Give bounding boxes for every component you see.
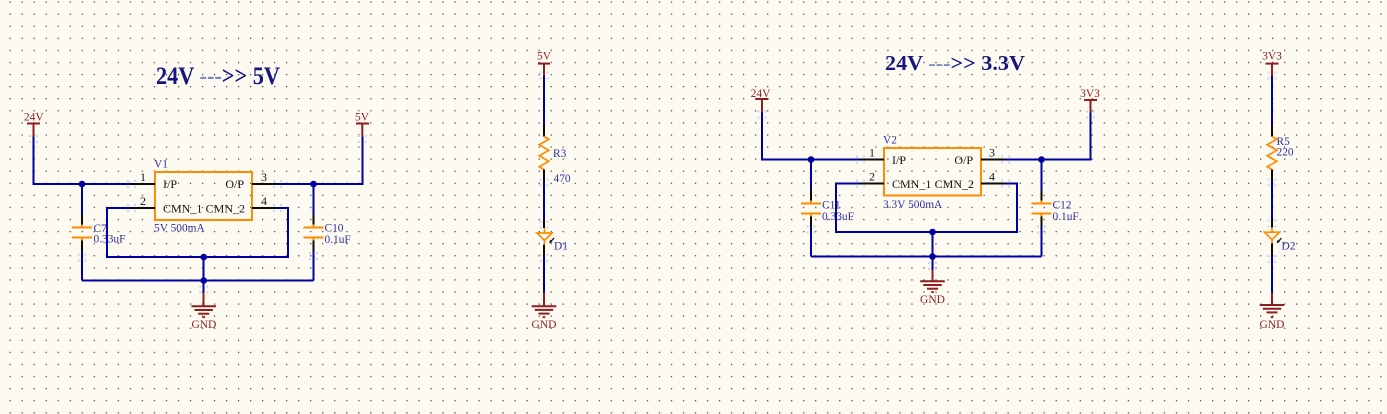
svg-text:470: 470 <box>554 173 571 185</box>
wire C10 bottom <box>313 251 315 281</box>
junction bottom rail <box>200 277 207 284</box>
ground GND (left circuit) <box>191 293 216 332</box>
junction bottom rail (right) <box>929 253 936 260</box>
resistor R5 <box>1267 125 1294 182</box>
wire bottom rail (right) <box>811 256 1042 258</box>
svg-text:GND: GND <box>532 319 557 331</box>
svg-text:C12: C12 <box>1053 200 1072 212</box>
wire 3V3 port to output node <box>1042 113 1091 160</box>
wire pin3 of V2 to output node <box>1005 159 1042 161</box>
svg-text:D1: D1 <box>554 241 568 253</box>
wire C11 top <box>810 160 812 191</box>
power port 5V (left circuit) <box>355 112 370 137</box>
wire D2 to GND <box>1271 256 1273 293</box>
svg-text:O/P: O/P <box>954 153 973 167</box>
svg-text:3: 3 <box>989 146 995 160</box>
svg-text:3V3: 3V3 <box>1080 88 1100 100</box>
svg-text:R3: R3 <box>553 148 567 160</box>
svg-text:0.33uF: 0.33uF <box>94 234 126 246</box>
ground GND (right circuit) <box>920 270 945 306</box>
connection markers <box>29 72 1277 294</box>
wire pin3 to output node <box>277 183 314 185</box>
wire D1 to GND <box>543 257 545 293</box>
junction at C7 top <box>79 181 86 188</box>
power port 5V (LED branch) <box>537 51 552 77</box>
ground GND (LED branch 1) <box>532 292 557 331</box>
wire ground stem (right) <box>932 232 934 270</box>
svg-text:220: 220 <box>1277 147 1294 159</box>
junction common loop to ground <box>200 254 207 261</box>
pin 2 of V1 <box>131 194 155 208</box>
wire 24V to pin1 of V1 <box>34 137 132 185</box>
svg-text:CMN_2: CMN_2 <box>935 177 974 191</box>
svg-text:0.33uF: 0.33uF <box>822 211 854 223</box>
svg-text:GND: GND <box>191 319 216 331</box>
pin 3 of V1 <box>252 170 277 184</box>
diode D2 <box>1265 219 1296 256</box>
svg-text:GND: GND <box>920 294 945 306</box>
pin 4 of V1 <box>252 194 277 208</box>
wire C7 top <box>81 184 83 215</box>
junction at C11 top <box>808 156 815 163</box>
svg-text:O/P: O/P <box>225 177 244 191</box>
pin 1 of V2 <box>860 146 884 160</box>
capacitor C10 <box>304 215 351 252</box>
wire 5V to R3 <box>543 76 545 125</box>
wire bottom rail <box>82 280 314 282</box>
wire common loop pin2 pin4 <box>107 208 288 257</box>
wire C10 top <box>313 184 315 215</box>
svg-text:GND: GND <box>1260 319 1285 331</box>
svg-text:2: 2 <box>869 170 875 184</box>
svg-text:3: 3 <box>261 170 267 184</box>
svg-text:4: 4 <box>261 194 267 208</box>
svg-text:3.3V 500mA: 3.3V 500mA <box>883 199 943 211</box>
capacitor C7 <box>72 215 125 252</box>
svg-text:1: 1 <box>869 146 875 160</box>
power port 24V (left circuit) <box>24 112 45 137</box>
capacitor C11 <box>801 191 854 228</box>
svg-text:3V3: 3V3 <box>1262 51 1282 63</box>
capacitor C12 <box>1032 191 1079 228</box>
svg-text:CMN_1: CMN_1 <box>163 202 202 216</box>
power port 3V3 (LED branch) <box>1262 51 1282 77</box>
power port 24V (right circuit) <box>751 88 772 112</box>
wire C12 top <box>1041 160 1043 191</box>
svg-text:24V --->> 3.3V: 24V --->> 3.3V <box>885 51 1025 75</box>
svg-text:24V --->> 5V: 24V --->> 5V <box>156 63 280 90</box>
svg-text:D2: D2 <box>1282 241 1296 253</box>
svg-text:5V: 5V <box>537 51 552 63</box>
regulator U/V1 box <box>155 172 252 220</box>
svg-text:0.1uF: 0.1uF <box>325 234 351 246</box>
wire R5 to D2 <box>1271 182 1273 220</box>
svg-text:C10: C10 <box>325 223 344 235</box>
junction common loop to ground (right) <box>929 229 936 236</box>
svg-text:V2: V2 <box>883 135 897 147</box>
pin 4 of V2 <box>981 170 1005 184</box>
svg-text:CMN_2: CMN_2 <box>206 202 245 216</box>
wire ground stem <box>203 257 205 293</box>
wire common loop pin2 pin4 of V2 <box>836 184 1017 233</box>
svg-text:5V 500mA: 5V 500mA <box>154 223 206 235</box>
junction at C12 top <box>1038 156 1045 163</box>
svg-text:1: 1 <box>140 170 146 184</box>
wire 24V to pin1 of V2 <box>762 112 860 160</box>
svg-text:0.1uF: 0.1uF <box>1053 211 1079 223</box>
junction at C10 top <box>310 181 317 188</box>
wire C11 bottom <box>810 227 812 257</box>
power port 3V3 (right circuit) <box>1080 88 1100 113</box>
wire 3V3 to R5 <box>1271 76 1273 125</box>
pin 2 of V2 <box>860 170 884 184</box>
regulator V2 box <box>884 148 981 196</box>
svg-text:24V: 24V <box>24 112 45 124</box>
ground GND (LED branch 2) <box>1260 293 1285 332</box>
pin 3 of V2 <box>981 146 1005 160</box>
resistor R3 <box>539 125 571 186</box>
wire R3 to D1 <box>543 182 545 220</box>
wire 5V port to output node <box>314 137 363 185</box>
wire C12 bottom <box>1041 227 1043 257</box>
svg-text:4: 4 <box>989 170 995 184</box>
wire C7 bottom <box>81 251 83 281</box>
pin 1 of V1 <box>131 170 155 184</box>
svg-text:C11: C11 <box>822 200 841 212</box>
diode D1 <box>537 219 568 257</box>
svg-text:I/P: I/P <box>163 177 177 191</box>
svg-text:CMN_1: CMN_1 <box>892 177 931 191</box>
svg-text:5V: 5V <box>355 112 370 124</box>
svg-text:V1: V1 <box>154 159 168 171</box>
svg-text:I/P: I/P <box>892 153 906 167</box>
svg-text:2: 2 <box>140 194 146 208</box>
